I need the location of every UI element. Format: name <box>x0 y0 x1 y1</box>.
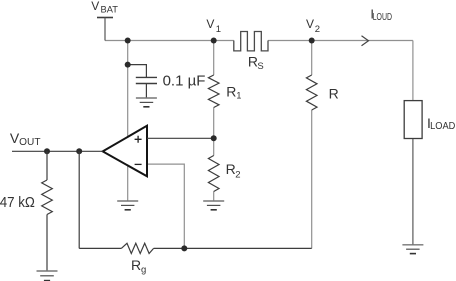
wire noninverting input <box>147 137 214 139</box>
svg-text:R: R <box>226 83 236 99</box>
power tick VBAT <box>97 17 113 19</box>
wire op-amp output <box>12 150 103 152</box>
node V2 <box>309 38 315 44</box>
wire R2 bottom to ground <box>213 192 215 202</box>
resistor Rg <box>121 243 153 253</box>
svg-text:2: 2 <box>315 24 320 35</box>
resistor R1 <box>208 75 219 108</box>
svg-text:0.1 µF: 0.1 µF <box>163 73 206 90</box>
load box ILOAD <box>404 101 422 139</box>
node Rg inverting junction <box>181 245 187 251</box>
wire V1 to R1 lead <box>213 41 215 76</box>
svg-text:R: R <box>329 85 339 101</box>
svg-text:LOUD: LOUD <box>373 12 392 23</box>
current arrow ILOUD <box>362 36 369 46</box>
wire R1 bottom to node to R2 top <box>213 108 215 156</box>
wire load box bottom to ground <box>412 139 414 245</box>
wire VBAT lead <box>104 18 106 41</box>
op-amp U1 <box>103 126 147 177</box>
node capacitor tap <box>125 62 131 68</box>
node feedback tap <box>76 148 82 154</box>
resistor R <box>306 75 317 110</box>
ground op-amp <box>117 200 138 202</box>
wire load box top lead <box>412 41 414 101</box>
wire op-amp V- pin to ground <box>127 160 129 201</box>
svg-text:BAT: BAT <box>101 4 119 15</box>
ground R2 <box>203 200 224 202</box>
ground 47k <box>37 270 58 272</box>
svg-text:R: R <box>226 161 236 177</box>
wire R bottom to feedback node <box>311 110 313 248</box>
wire capacitor branch <box>128 65 147 78</box>
svg-text:1: 1 <box>236 91 241 101</box>
wire feedback bottom left <box>79 247 121 249</box>
svg-text:V: V <box>306 17 314 31</box>
svg-text:LOAD: LOAD <box>430 121 455 132</box>
node VOUT <box>44 148 50 154</box>
svg-text:1: 1 <box>216 24 221 35</box>
wire feedback bottom right <box>154 247 312 249</box>
wire inverting input to feedback node <box>147 164 184 248</box>
capacitor C1 0.1uF <box>136 76 157 78</box>
svg-text:OUT: OUT <box>19 137 40 148</box>
wire VOUT to 47k <box>46 151 48 180</box>
svg-text:2: 2 <box>235 169 240 180</box>
wire supply branch vertical <box>127 41 129 142</box>
svg-text:R: R <box>131 257 141 273</box>
wire 47k to ground <box>46 215 48 272</box>
svg-text:47 kΩ: 47 kΩ <box>0 194 35 211</box>
wire feedback vertical <box>78 151 80 248</box>
svg-text:g: g <box>141 264 146 275</box>
svg-text:V: V <box>91 0 99 13</box>
wire V2 to R lead <box>311 41 313 76</box>
svg-text:S: S <box>257 61 263 72</box>
resistor RS shunt <box>234 32 268 51</box>
node V1 <box>211 38 217 44</box>
node supply branch <box>125 38 131 44</box>
resistor R2 <box>208 156 219 192</box>
node R1 R2 junction <box>211 135 217 141</box>
ground capacitor <box>136 97 157 99</box>
svg-text:V: V <box>206 17 214 31</box>
wire top supply rail <box>105 40 413 42</box>
resistor 47 kOhm <box>42 180 53 215</box>
ground load <box>402 244 423 246</box>
